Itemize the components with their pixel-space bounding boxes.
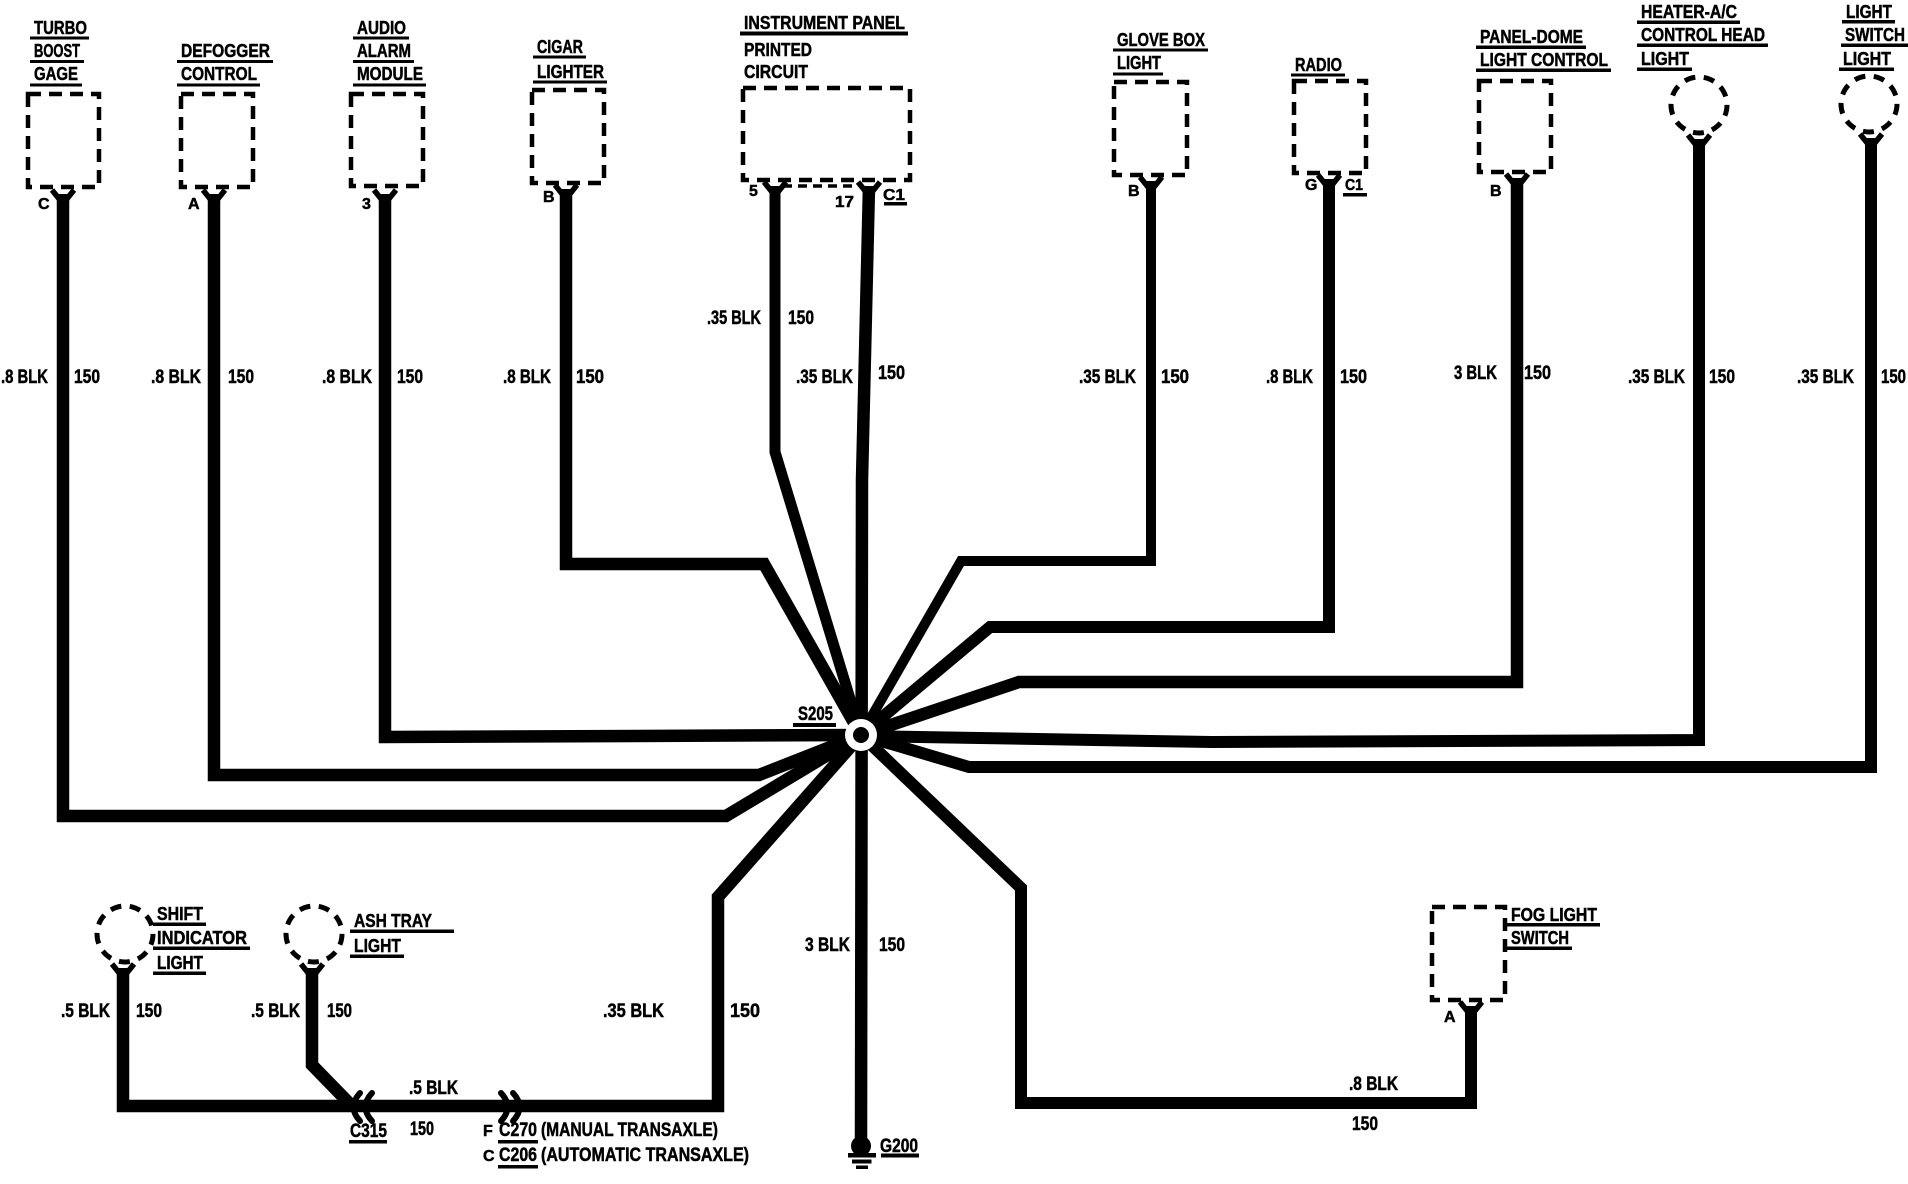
svg-text:150: 150: [1340, 367, 1367, 388]
svg-text:.8 BLK: .8 BLK: [1, 367, 48, 388]
svg-text:SWITCH: SWITCH: [1845, 24, 1905, 45]
svg-text:C: C: [38, 196, 50, 213]
svg-text:150: 150: [1881, 367, 1906, 388]
component: fog light switch (dashed box): [1432, 904, 1600, 1026]
svg-text:INDICATOR: INDICATOR: [157, 927, 247, 948]
component: radio (dashed box): [1291, 54, 1367, 197]
svg-text:A: A: [188, 196, 200, 213]
wire: 3 BLK 150 splice to ground G200 labels: [805, 935, 905, 956]
svg-text:150: 150: [730, 1001, 760, 1022]
svg-text:LIGHT: LIGHT: [157, 952, 204, 973]
svg-text:AUDIO: AUDIO: [357, 17, 406, 38]
wire: instrument panel pin 17 ground wire .35 BLK 150 through splice S205 to G200: [796, 182, 905, 1140]
svg-text:.35 BLK: .35 BLK: [603, 1001, 664, 1022]
wire: ash tray light ground wire .5 BLK 150 joining at C315: [251, 964, 352, 1104]
svg-text:SWITCH: SWITCH: [1511, 927, 1569, 948]
svg-text:MODULE: MODULE: [357, 63, 423, 84]
wire: radio ground wire .8 BLK 150 to splice S205: [861, 175, 1367, 735]
svg-text:.5 BLK: .5 BLK: [61, 1001, 110, 1022]
svg-text:DEFOGGER: DEFOGGER: [181, 40, 270, 61]
svg-text:B: B: [1128, 183, 1140, 200]
svg-text:(MANUAL TRANSAXLE): (MANUAL TRANSAXLE): [541, 1120, 718, 1141]
svg-text:ALARM: ALARM: [357, 40, 411, 61]
svg-text:LIGHT: LIGHT: [1641, 48, 1690, 69]
svg-text:CONTROL HEAD: CONTROL HEAD: [1641, 24, 1765, 45]
svg-text:.35 BLK: .35 BLK: [1079, 367, 1136, 388]
svg-text:150: 150: [410, 1119, 434, 1140]
svg-text:.8 BLK: .8 BLK: [1266, 367, 1313, 388]
svg-text:BOOST: BOOST: [34, 40, 80, 61]
svg-text:3 BLK: 3 BLK: [1454, 363, 1497, 384]
component: light switch light (dashed circle bulb): [1839, 1, 1908, 132]
svg-text:(AUTOMATIC TRANSAXLE): (AUTOMATIC TRANSAXLE): [541, 1145, 749, 1166]
svg-text:C1: C1: [883, 187, 905, 204]
component: audio alarm module (dashed box): [351, 17, 426, 213]
svg-text:150: 150: [1709, 367, 1735, 388]
svg-text:150: 150: [74, 367, 100, 388]
svg-text:S205: S205: [798, 704, 833, 725]
wire: light switch light ground wire .35 BLK 150 to splice S205: [861, 134, 1906, 767]
svg-text:5: 5: [749, 183, 758, 200]
svg-text:3 BLK: 3 BLK: [805, 935, 850, 956]
svg-text:.35 BLK: .35 BLK: [796, 367, 853, 388]
wire: panel-dome light control ground wire 3 BLK 150 to splice S205: [861, 174, 1551, 735]
svg-text:17: 17: [835, 194, 854, 211]
svg-text:G: G: [1305, 177, 1317, 194]
svg-text:LIGHT: LIGHT: [1117, 52, 1162, 73]
wire: audio alarm module ground wire .8 BLK 150 to splice S205: [322, 190, 861, 737]
svg-text:150: 150: [788, 308, 814, 329]
svg-text:C270: C270: [499, 1120, 537, 1141]
svg-text:.35 BLK: .35 BLK: [1797, 367, 1854, 388]
svg-text:LIGHT: LIGHT: [354, 935, 402, 956]
svg-text:B: B: [1490, 183, 1502, 200]
wire: fog light switch ground wire .8 BLK 150 to splice S205: [861, 735, 1482, 1135]
svg-text:150: 150: [327, 1001, 352, 1022]
svg-text:150: 150: [879, 935, 905, 956]
svg-text:SHIFT: SHIFT: [157, 903, 204, 924]
svg-text:CONTROL: CONTROL: [181, 63, 257, 84]
svg-text:C206: C206: [499, 1145, 537, 1166]
svg-text:3: 3: [362, 196, 371, 213]
svg-text:150: 150: [1352, 1114, 1378, 1135]
svg-text:150: 150: [397, 367, 423, 388]
wire: .5 BLK 150 between C315 and C270/C206: [409, 1078, 458, 1140]
svg-text:CIGAR: CIGAR: [537, 36, 583, 57]
svg-text:C: C: [483, 1148, 495, 1165]
component: defogger control (dashed box): [177, 40, 273, 213]
wire: glove box light ground wire .35 BLK 150 to splice S205: [861, 177, 1189, 735]
svg-text:A: A: [1444, 1009, 1456, 1026]
wire: heater-a/c control head light ground wire .35 BLK 150 to splice S205: [861, 135, 1735, 742]
component: heater-a/c control head light (dashed circle bulb): [1637, 1, 1768, 133]
svg-text:150: 150: [1524, 363, 1551, 384]
svg-text:.8 BLK: .8 BLK: [503, 367, 551, 388]
svg-text:LIGHTER: LIGHTER: [537, 61, 604, 82]
component: glove box light (dashed box): [1113, 29, 1208, 200]
wire: shift indicator light ground wire .5 BLK 150 to C315: [61, 735, 861, 1106]
connector C270 / C206 (inline connector halves): [483, 1001, 760, 1169]
wire: defogger control ground wire .8 BLK 150 to splice S205: [151, 190, 861, 775]
component: ash tray light (dashed circle bulb): [286, 906, 454, 962]
svg-text:.35 BLK: .35 BLK: [1628, 367, 1685, 388]
svg-text:150: 150: [576, 367, 604, 388]
svg-text:LIGHT: LIGHT: [1846, 1, 1893, 22]
svg-text:C315: C315: [350, 1121, 387, 1142]
wire: instrument panel pin 5 ground wire .35 BLK 150 to splice S205: [707, 182, 861, 735]
wire: dashed printed-circuit link between pin 5 and pin 17: [783, 184, 857, 188]
svg-text:HEATER-A/C: HEATER-A/C: [1641, 1, 1737, 22]
component: instrument panel printed circuit (dashed box): [740, 12, 910, 211]
svg-text:150: 150: [1161, 367, 1189, 388]
svg-text:.8 BLK: .8 BLK: [1349, 1074, 1398, 1095]
svg-text:CIRCUIT: CIRCUIT: [744, 61, 809, 82]
svg-text:.5 BLK: .5 BLK: [409, 1078, 458, 1099]
svg-text:ASH TRAY: ASH TRAY: [354, 910, 433, 931]
svg-text:GLOVE BOX: GLOVE BOX: [1117, 29, 1206, 50]
svg-text:C1: C1: [1345, 177, 1363, 194]
ground: G200: [848, 1136, 919, 1169]
svg-text:INSTRUMENT PANEL: INSTRUMENT PANEL: [744, 12, 905, 33]
node: splice S205: [793, 704, 877, 751]
svg-text:.5 BLK: .5 BLK: [251, 1001, 300, 1022]
svg-text:LIGHT: LIGHT: [1843, 48, 1892, 69]
svg-text:RADIO: RADIO: [1295, 54, 1342, 75]
svg-text:PANEL-DOME: PANEL-DOME: [1480, 26, 1583, 47]
component: panel-dome light control (dashed box): [1476, 26, 1611, 200]
svg-text:150: 150: [878, 363, 905, 384]
svg-text:F: F: [483, 1123, 493, 1140]
wire: turbo boost gage ground wire .8 BLK 150 to splice S205: [1, 190, 861, 816]
svg-text:.8 BLK: .8 BLK: [151, 367, 201, 388]
svg-text:PRINTED: PRINTED: [744, 39, 812, 60]
svg-text:.8 BLK: .8 BLK: [322, 367, 372, 388]
svg-text:.35 BLK: .35 BLK: [707, 308, 761, 329]
svg-text:150: 150: [136, 1001, 162, 1022]
component: shift indicator light (dashed circle bulb): [97, 903, 250, 975]
wire: cigar lighter ground wire .8 BLK 150 to splice S205: [503, 185, 861, 735]
component: turbo boost gage (dashed box): [28, 17, 99, 213]
svg-text:B: B: [543, 189, 555, 206]
svg-text:150: 150: [228, 367, 254, 388]
svg-text:TURBO: TURBO: [34, 17, 87, 38]
svg-text:GAGE: GAGE: [34, 63, 78, 84]
connector C315 (inline connector halves): [349, 1093, 387, 1144]
component: cigar lighter (dashed box): [532, 36, 607, 206]
svg-text:LIGHT CONTROL: LIGHT CONTROL: [1480, 49, 1608, 70]
svg-text:FOG LIGHT: FOG LIGHT: [1511, 904, 1598, 925]
